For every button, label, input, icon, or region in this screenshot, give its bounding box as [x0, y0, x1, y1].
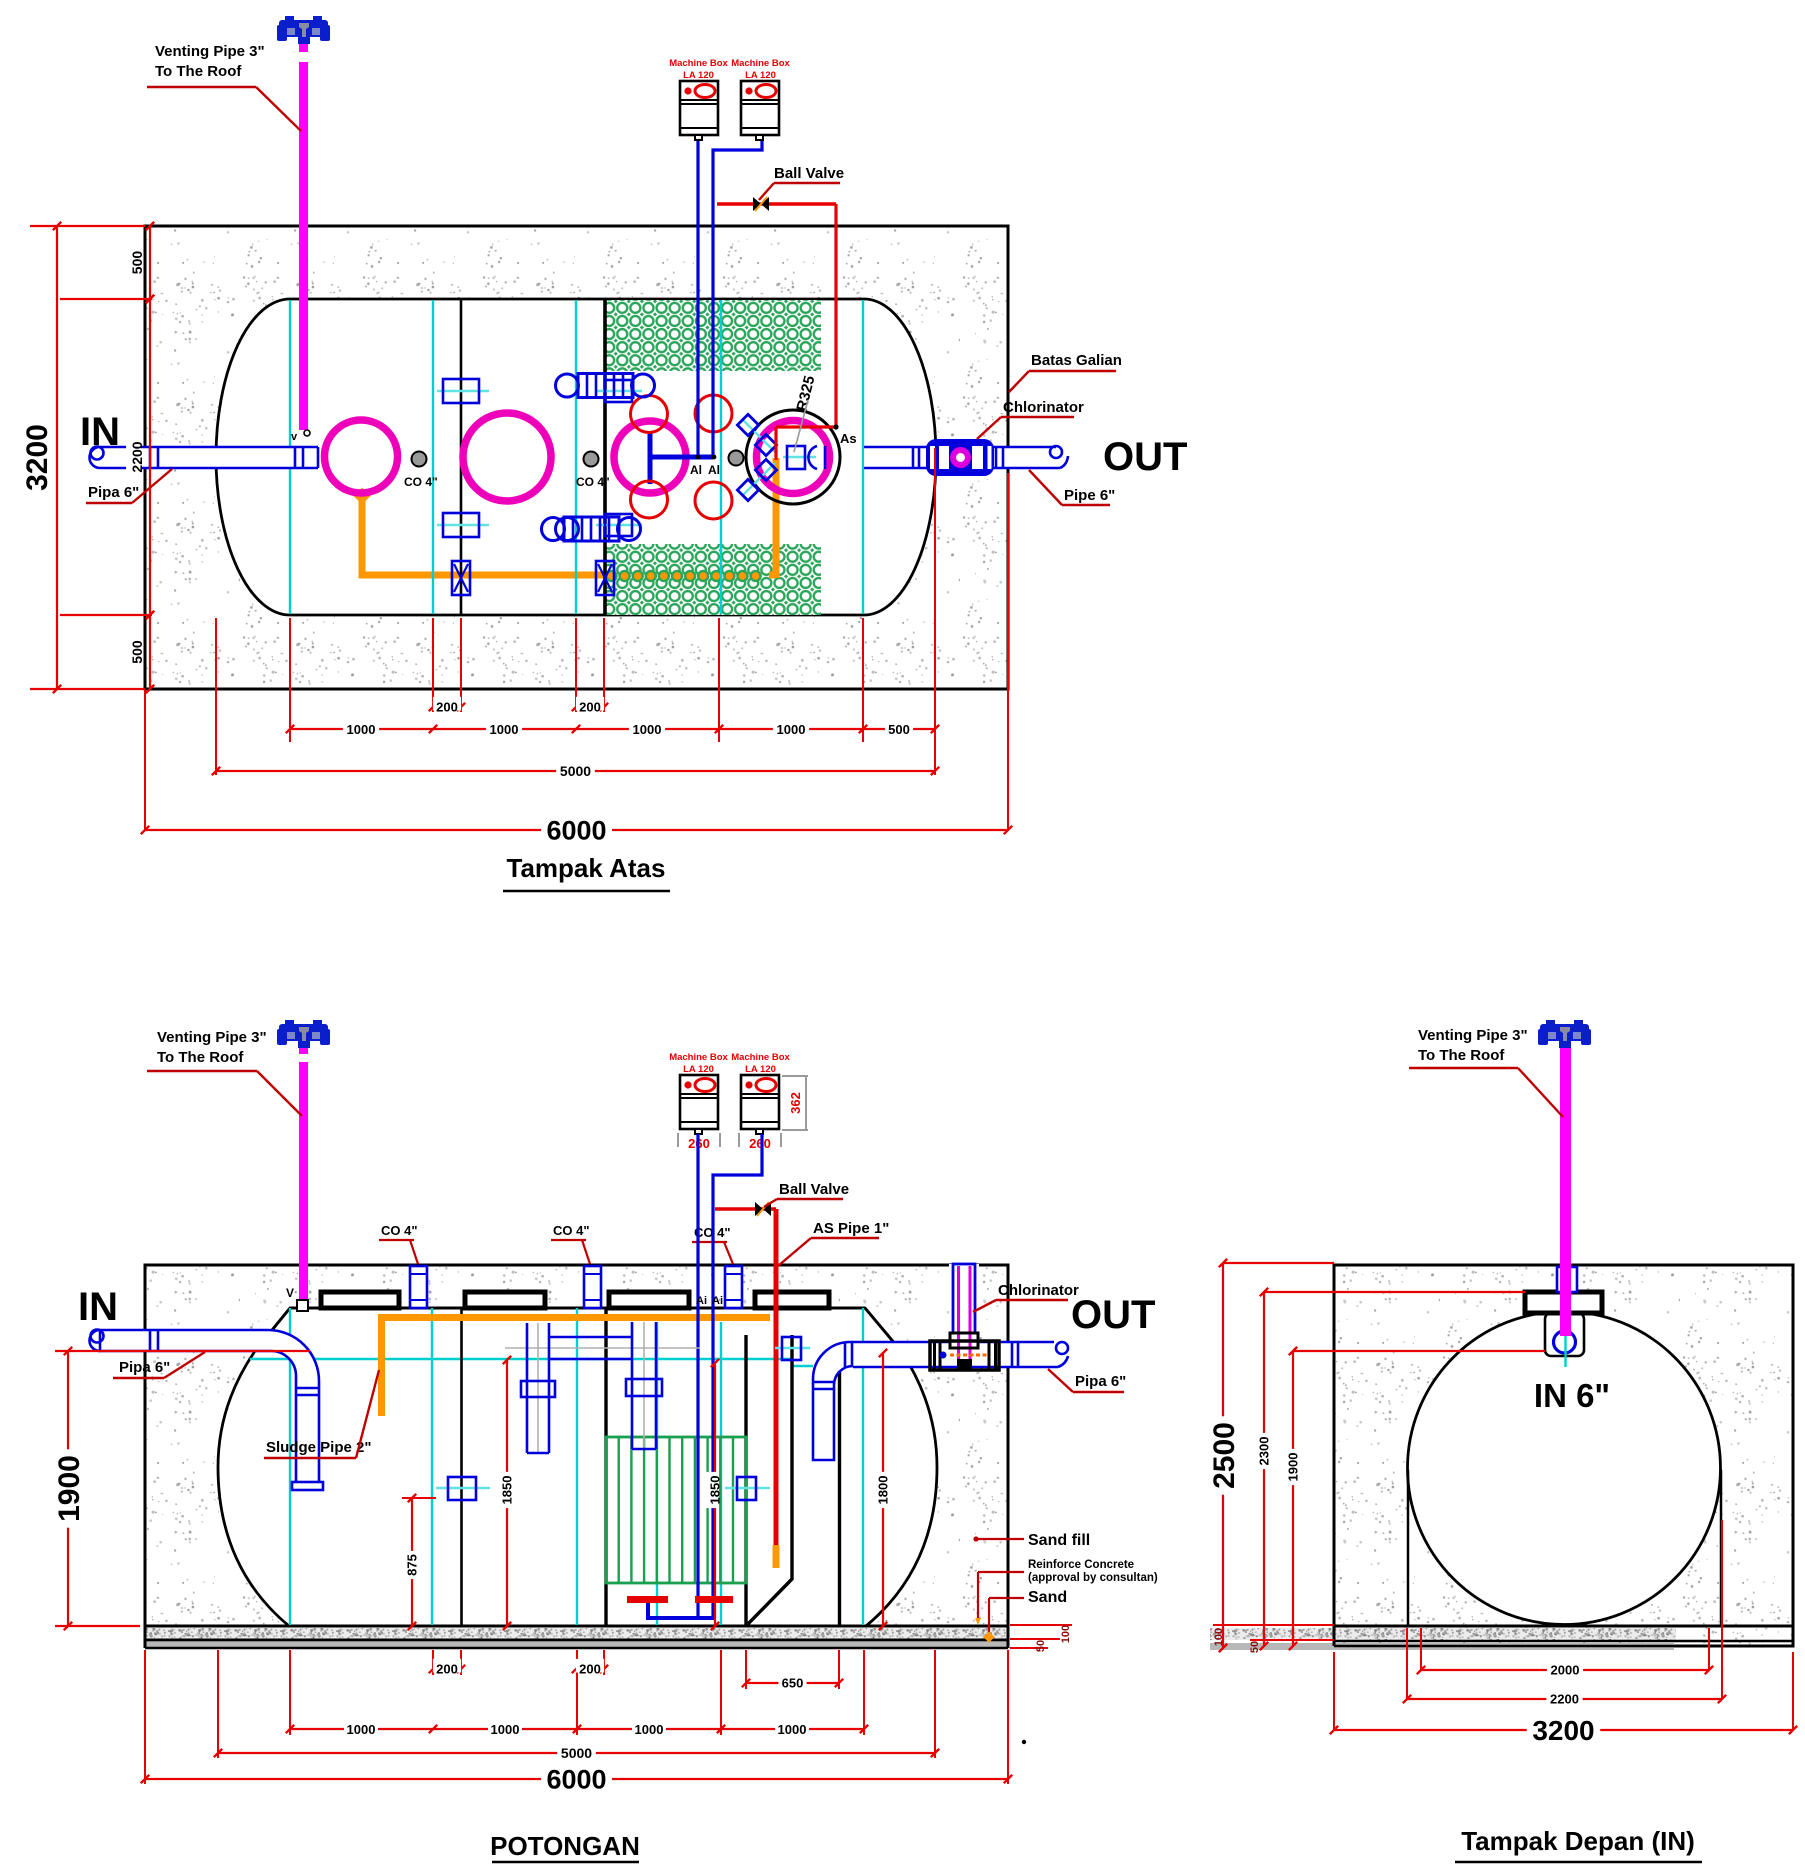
- svg-text:OUT: OUT: [1103, 435, 1187, 479]
- svg-text:Sludge Pipe 2": Sludge Pipe 2": [266, 1439, 371, 1456]
- svg-text:v: v: [291, 431, 298, 443]
- svg-text:875: 875: [405, 1554, 420, 1576]
- svg-text:POTONGAN: POTONGAN: [490, 1831, 640, 1861]
- svg-text:LA 120: LA 120: [745, 1064, 776, 1075]
- svg-text:650: 650: [782, 1676, 804, 1691]
- svg-text:To The Roof: To The Roof: [155, 63, 242, 80]
- svg-text:2500: 2500: [1208, 1422, 1241, 1489]
- svg-text:Reinforce Concrete: Reinforce Concrete: [1028, 1559, 1134, 1571]
- svg-text:1900: 1900: [53, 1455, 86, 1522]
- svg-text:LA 120: LA 120: [683, 70, 714, 81]
- svg-text:2200: 2200: [1550, 1692, 1579, 1707]
- svg-text:Machine Box: Machine Box: [731, 58, 790, 69]
- svg-text:1000: 1000: [633, 722, 662, 737]
- svg-text:AS Pipe 1": AS Pipe 1": [813, 1220, 889, 1237]
- svg-text:1850: 1850: [500, 1476, 515, 1505]
- svg-text:1000: 1000: [347, 722, 376, 737]
- svg-text:To The Roof: To The Roof: [157, 1049, 244, 1066]
- svg-text:Machine Box: Machine Box: [669, 1052, 728, 1063]
- svg-text:500: 500: [129, 251, 145, 275]
- svg-text:Ai: Ai: [696, 1295, 707, 1307]
- svg-text:Venting Pipe 3": Venting Pipe 3": [1418, 1027, 1528, 1044]
- svg-text:1000: 1000: [777, 722, 806, 737]
- svg-text:3200: 3200: [21, 424, 54, 491]
- svg-text:Ball Valve: Ball Valve: [774, 165, 844, 182]
- svg-text:Pipa 6": Pipa 6": [119, 1359, 170, 1376]
- svg-text:As: As: [840, 431, 857, 446]
- svg-text:Ai: Ai: [712, 1295, 723, 1307]
- svg-text:Ball Valve: Ball Valve: [779, 1181, 849, 1198]
- svg-text:OUT: OUT: [1071, 1293, 1155, 1337]
- svg-text:6000: 6000: [546, 816, 606, 846]
- svg-text:362: 362: [788, 1092, 803, 1114]
- svg-text:1000: 1000: [778, 1722, 807, 1737]
- svg-text:IN: IN: [80, 410, 120, 454]
- svg-text:200: 200: [436, 700, 458, 715]
- svg-text:1900: 1900: [1286, 1453, 1301, 1482]
- svg-text:3200: 3200: [1532, 1715, 1594, 1746]
- svg-text:50: 50: [1249, 1641, 1261, 1653]
- svg-text:To The Roof: To The Roof: [1418, 1047, 1505, 1064]
- svg-text:V: V: [286, 1286, 294, 1300]
- svg-text:1800: 1800: [876, 1476, 891, 1505]
- svg-text:2300: 2300: [1257, 1437, 1272, 1466]
- svg-text:1850: 1850: [708, 1476, 723, 1505]
- svg-text:2200: 2200: [129, 441, 145, 472]
- svg-text:Machine Box: Machine Box: [731, 1052, 790, 1063]
- svg-text:500: 500: [888, 722, 910, 737]
- svg-text:Al: Al: [708, 463, 720, 477]
- svg-text:Chlorinator: Chlorinator: [1003, 399, 1084, 416]
- svg-text:1000: 1000: [491, 1722, 520, 1737]
- svg-text:1000: 1000: [635, 1722, 664, 1737]
- svg-text:CO 4": CO 4": [553, 1223, 590, 1238]
- svg-text:CO 4": CO 4": [576, 475, 610, 489]
- svg-text:5000: 5000: [560, 763, 591, 779]
- svg-text:1000: 1000: [347, 1722, 376, 1737]
- svg-text:IN: IN: [78, 1285, 118, 1329]
- svg-text:Sand fill: Sand fill: [1028, 1532, 1090, 1549]
- svg-text:50: 50: [1035, 1640, 1047, 1652]
- svg-text:200: 200: [436, 1662, 458, 1677]
- svg-text:CO 4": CO 4": [404, 475, 438, 489]
- svg-text:200: 200: [579, 1662, 601, 1677]
- svg-text:1000: 1000: [490, 722, 519, 737]
- svg-text:6000: 6000: [546, 1765, 606, 1795]
- svg-text:(approval by consultan): (approval by consultan): [1028, 1572, 1158, 1584]
- svg-text:Chlorinator: Chlorinator: [998, 1282, 1079, 1299]
- svg-text:100: 100: [1213, 1628, 1225, 1646]
- svg-text:Pipa 6": Pipa 6": [88, 484, 139, 501]
- svg-text:Pipe 6": Pipe 6": [1064, 487, 1115, 504]
- svg-text:500: 500: [129, 640, 145, 664]
- svg-text:Machine Box: Machine Box: [669, 58, 728, 69]
- svg-text:Venting Pipe 3": Venting Pipe 3": [157, 1029, 267, 1046]
- svg-text:200: 200: [579, 700, 601, 715]
- svg-text:2000: 2000: [1551, 1663, 1580, 1678]
- svg-text:Sand: Sand: [1028, 1589, 1067, 1606]
- svg-text:LA 120: LA 120: [683, 1064, 714, 1075]
- svg-text:260: 260: [749, 1136, 771, 1151]
- svg-text:Pipa 6": Pipa 6": [1075, 1373, 1126, 1390]
- svg-text:Batas Galian: Batas Galian: [1031, 352, 1122, 369]
- svg-text:100: 100: [1060, 1625, 1072, 1643]
- svg-text:Venting Pipe 3": Venting Pipe 3": [155, 43, 265, 60]
- svg-text:Al: Al: [690, 463, 702, 477]
- svg-text:Tampak Atas: Tampak Atas: [507, 853, 666, 883]
- svg-text:CO 4": CO 4": [381, 1223, 418, 1238]
- svg-text:LA 120: LA 120: [745, 70, 776, 81]
- svg-text:Tampak Depan (IN): Tampak Depan (IN): [1461, 1826, 1695, 1856]
- svg-text:IN 6": IN 6": [1534, 1377, 1610, 1414]
